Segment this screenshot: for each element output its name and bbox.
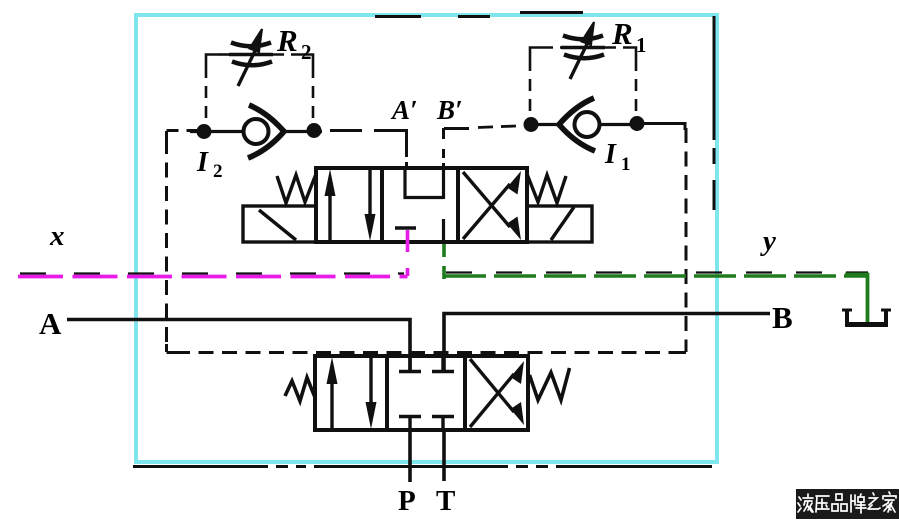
pilot line x black under-dashes bbox=[20, 272, 404, 274]
enclosure dashed boundary left edge bbox=[165, 139, 168, 344]
junction dot I1 left bbox=[524, 117, 539, 132]
enclosure dashed segment B' corner to I1 bbox=[444, 127, 469, 130]
wire I1 to enclosure right edge bbox=[637, 124, 685, 131]
port A wire bbox=[67, 320, 410, 372]
pilot valve left box up arrow bbox=[325, 169, 336, 240]
pilot valve centre: B' to bottom vertical bbox=[442, 168, 445, 242]
pilot line y green dashed bbox=[444, 274, 868, 277]
port B wire bbox=[444, 314, 770, 372]
pilot line y green vertical top bbox=[442, 244, 446, 279]
node A' stub bbox=[405, 129, 408, 157]
svg-text:B: B bbox=[772, 300, 793, 335]
cyan plate border bbox=[136, 15, 717, 462]
watermark bbox=[796, 489, 899, 519]
svg-text:y: y bbox=[760, 225, 776, 257]
port T wire bbox=[442, 430, 446, 481]
pilot valve centre: A' to y path bbox=[405, 168, 443, 198]
drain tank symbol bbox=[842, 309, 891, 325]
pilot valve right spring bbox=[527, 174, 566, 203]
svg-text:A: A bbox=[39, 306, 62, 341]
液 bbox=[798, 497, 801, 512]
pilot valve U1 body bbox=[316, 168, 527, 242]
main valve left box down arrow bbox=[366, 358, 377, 429]
check valve I2 bbox=[190, 105, 322, 158]
品 bbox=[832, 494, 847, 511]
pilot line x magenta dashed bbox=[18, 275, 408, 279]
pilot valve left box down arrow bbox=[365, 170, 376, 241]
svg-text:1: 1 bbox=[621, 154, 631, 175]
main valve left box up arrow bbox=[327, 357, 338, 428]
main valve right spring bbox=[530, 368, 570, 400]
svg-text:T: T bbox=[436, 485, 455, 517]
pilot valve right solenoid box bbox=[527, 206, 592, 242]
throttle valve R2 bbox=[229, 29, 273, 86]
check valve I1 bbox=[531, 98, 637, 151]
black line on bottom border bbox=[133, 465, 712, 468]
enclosure dashed boundary right edge bbox=[685, 128, 688, 344]
家 bbox=[883, 492, 896, 512]
svg-text:A′: A′ bbox=[390, 95, 418, 125]
pilot line x magenta vertical bbox=[406, 230, 410, 276]
svg-text:x: x bbox=[49, 220, 65, 252]
throttle R2 dashed box bbox=[206, 55, 313, 125]
enclosure dashed segment I2 to A' corner bbox=[330, 129, 362, 132]
svg-text:B′: B′ bbox=[436, 95, 463, 125]
牌 bbox=[851, 494, 866, 513]
压 bbox=[816, 496, 829, 512]
svg-text:I: I bbox=[196, 147, 209, 178]
main valve centre blocked ports T-bars bbox=[399, 356, 454, 430]
pilot line y green corner and drop bbox=[845, 275, 868, 323]
junction dot I2 right bbox=[307, 123, 322, 138]
black line on right border bbox=[713, 16, 716, 210]
enclosure dashed boundary bottom edge bbox=[167, 351, 687, 354]
throttle R1 dashed box bbox=[530, 48, 636, 119]
port P wire bbox=[408, 430, 412, 482]
main valve left spring bbox=[285, 378, 315, 402]
svg-text:R: R bbox=[276, 23, 298, 58]
node B' stub bbox=[442, 128, 445, 168]
junction dot I2 left bbox=[197, 124, 212, 139]
之 bbox=[868, 493, 880, 509]
pilot valve left spring bbox=[277, 174, 316, 203]
throttle valve R1 bbox=[561, 22, 605, 79]
pilot valve centre: blocked x port T-bar bbox=[395, 226, 416, 230]
enclosure dashed top-left segment bbox=[167, 129, 201, 132]
svg-text:2: 2 bbox=[213, 161, 223, 182]
black dashes on top border bbox=[375, 13, 583, 17]
pilot line y black dashes bbox=[446, 271, 868, 273]
pilot valve left solenoid box bbox=[243, 206, 316, 242]
pilot valve right box crossed arrows bbox=[463, 171, 521, 240]
svg-text:I: I bbox=[604, 139, 617, 170]
junction dot I1 right bbox=[630, 116, 645, 131]
svg-text:1: 1 bbox=[636, 33, 647, 57]
svg-text:R: R bbox=[611, 16, 633, 51]
svg-text:2: 2 bbox=[301, 40, 312, 64]
main valve V2 body bbox=[315, 356, 528, 430]
svg-text:P: P bbox=[398, 485, 416, 517]
main valve right box crossed arrows bbox=[470, 359, 524, 427]
